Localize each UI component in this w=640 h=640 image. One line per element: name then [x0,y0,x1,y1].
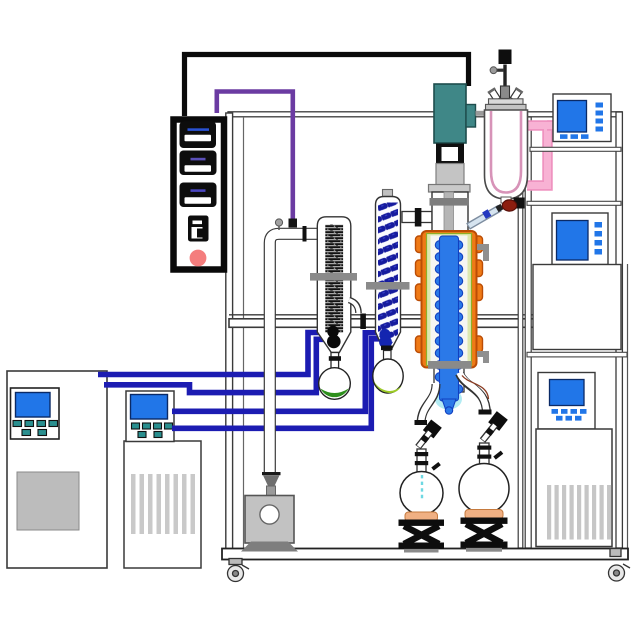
heater cabinet B1 [7,371,107,568]
tab to vessel link [476,111,486,116]
shaft coupling [501,86,510,99]
mid thin rail [229,314,621,316]
shelf under R2 [527,352,627,357]
bottom bar [222,549,628,560]
controller tower and wires [174,55,469,270]
K2 neck clamp band [381,346,393,351]
pump base [241,542,298,552]
lab jack J2 [466,524,502,543]
left vacuum adapter diamond [423,419,442,438]
B2 controller head [126,391,174,442]
T1 module 1 [180,122,217,149]
receiver flask F1 [400,472,443,515]
B1 buttons row1 [13,421,58,427]
pink heating loop [527,126,548,186]
coolant pipe D [172,339,383,429]
coolant pipe A [98,333,327,375]
coolant piping [98,333,383,429]
heating jacket ribs right [475,236,483,353]
lower clamp bar [428,361,472,369]
K1 neck [331,353,339,369]
K1 receiver flask [319,368,351,400]
right rack right post [616,112,622,548]
upper gray column [436,164,464,186]
coolant pipe C [172,333,383,412]
controller R1 [553,94,611,142]
vacuum line and pump [241,219,318,552]
bottom stem [501,197,511,203]
K1 takeoff valve [360,314,366,330]
F1 cork ring [405,512,438,522]
K2 side arm flange [415,208,422,227]
top rail [228,112,622,117]
gauge ball on bend [278,226,280,230]
chiller R3 body [536,429,612,547]
B2 buttons row2 [138,432,162,438]
K1 coil hatch [325,225,343,333]
jacket port elbow top [477,244,489,261]
controller R2 head [552,213,608,265]
condensers K1 K2 [310,190,432,400]
T1 module 3 [180,183,217,208]
wiper rotor [435,236,462,414]
jacket port elbow bottom [477,351,489,363]
heating jacket [422,231,477,368]
right angled drip tip [483,425,496,441]
shaft side arm [494,69,504,72]
controller tower T1 [174,120,225,270]
black signal wire [185,55,469,117]
R3 vent stripes [547,485,611,540]
stirrer motor [499,50,512,65]
left angled drip tip [418,432,430,447]
right rack left post [525,117,531,548]
K1 neck clamp band [329,356,341,361]
receiver flask F2 [459,464,509,514]
shelf under R1 [530,147,621,151]
coil condenser K2 cap [383,190,393,198]
top flange [429,185,471,193]
T1 pilot lamp [190,250,207,267]
F1 side nub [431,462,441,471]
K2 body [376,197,401,351]
K1 clamp [310,273,357,281]
neck clamp band [430,198,470,206]
F2 cork ring [465,510,503,520]
K2 receiver flask [373,359,403,393]
B1 gray louver panel [17,472,79,530]
left takeoff clamp band [415,420,428,425]
right angled neck [510,87,524,102]
left angled neck [487,87,501,102]
jacket green liner [427,234,472,366]
K2 neck [384,351,392,360]
purple signal wire [217,92,293,220]
left equipment cabinets [7,371,201,568]
coolant pipe B [104,339,328,392]
condensate glow [435,389,462,410]
K2 flask liquid [374,380,402,393]
K2 clamp [366,282,410,290]
right vacuum adapter diamond [488,411,508,431]
shelf line 2 [527,201,621,205]
drain ball valve [514,198,525,209]
lab jack J1 [404,526,439,544]
B1 controller faceplate [11,388,60,439]
bullhorn left tube [421,384,436,424]
right outer line [627,264,629,548]
coupling window [436,144,464,164]
pump sight glass [260,505,279,524]
inner left line [243,117,245,548]
F2 side nub [493,451,503,460]
right flask neck [480,443,490,464]
bullhorn right tube [460,374,487,415]
mid rail bar [229,319,621,328]
vacuum glass line bore [270,234,318,474]
heating jacket ribs left [416,236,424,353]
T1 switch module [188,216,209,242]
right inner post [518,117,523,548]
inner vessel pink wall [491,111,521,193]
vacuum glass line outer [270,234,317,474]
F1 drip [421,475,423,500]
jacketed vessel body [485,110,528,199]
support frame rack [222,112,630,582]
right instrument rack units [527,94,627,547]
inline valve tick [303,226,307,242]
K1 takeoff side tube [349,300,359,313]
R2 cabinet body [533,265,621,350]
pump chiller B2 body [124,441,201,568]
B1 screen [16,393,51,418]
vessel lid [489,99,524,105]
caster left [228,559,250,582]
pump inlet funnel [262,472,281,475]
receiving flasks and jacks [399,410,510,553]
T1 module 2 [180,151,217,176]
right takeoff clamp band [479,410,492,415]
cold trap condenser K1 body [317,217,351,353]
B2 vent stripes [131,474,195,534]
stirrer shaft [503,65,506,111]
inner rotor shaft [444,192,454,233]
K1 drain adapter blob [327,326,339,338]
purple wire connector [289,219,298,228]
K2 drain adapter blob [379,329,390,340]
feed vessel assembly [485,50,558,212]
bullhorn right heat tint [462,376,489,400]
K1 flask green liquid [320,389,348,398]
left post [226,113,233,549]
M1 side tab [466,105,476,128]
glass neck [432,192,468,233]
feed syringe tube [468,208,500,227]
B1 buttons row2 [22,430,47,436]
chiller R3 head [538,373,595,430]
B2 buttons row1 [132,423,173,429]
lower glass tube [434,362,464,392]
K2 blue coil [378,203,398,348]
vacuum pump body [245,496,294,544]
wiped film evaporator column [416,84,503,425]
jacket glass bore [431,236,468,365]
caster right [609,549,631,582]
drive motor M1 [434,84,466,143]
left flask neck [417,449,426,472]
K2 side arm to column [402,212,432,223]
B2 screen [131,395,168,420]
